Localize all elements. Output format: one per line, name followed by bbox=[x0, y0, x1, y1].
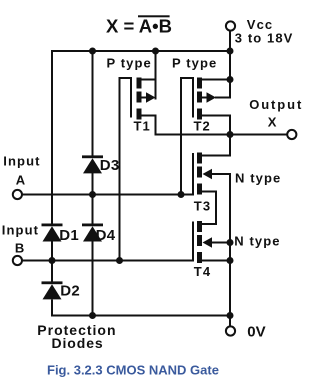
svg-text:Diodes: Diodes bbox=[52, 335, 104, 351]
svg-text:Output: Output bbox=[249, 97, 303, 112]
svg-text:D2: D2 bbox=[60, 283, 80, 300]
label formula X = A.B bbox=[106, 15, 172, 36]
wire top Vcc rail bbox=[51, 50, 231, 52]
junction dot Vcc rail / Vcc terminal bbox=[227, 48, 234, 55]
T4 source stub to 0V column bbox=[202, 260, 232, 262]
junction dot Vcc rail / T1 source bbox=[152, 48, 159, 55]
T1 source column from Vcc rail bbox=[155, 50, 157, 100]
wire D2 anode to 0V rail bbox=[51, 300, 53, 317]
T3 gate plate bbox=[192, 153, 194, 196]
svg-text:0V: 0V bbox=[247, 324, 265, 341]
junction dot Input B / D1-D2 bbox=[49, 257, 56, 264]
T3 source stub bbox=[202, 191, 218, 193]
T1 substrate arrow (points right) bbox=[146, 92, 156, 103]
svg-text:Input: Input bbox=[3, 154, 40, 169]
T1 channel bar top bbox=[137, 78, 142, 89]
T2 substrate shaft right part to Vcc column bbox=[215, 97, 231, 99]
T2 substrate shaft left part bbox=[202, 97, 209, 99]
T3 channel bar bottom bbox=[197, 184, 202, 195]
terminal Input B bbox=[13, 256, 22, 265]
wire output line to Output X terminal bbox=[155, 134, 288, 136]
junction dot T2 source / Vcc column bbox=[227, 76, 234, 83]
svg-text:T2: T2 bbox=[194, 119, 211, 134]
transistor Q T4 (N type) bbox=[193, 221, 231, 263]
terminal Output X bbox=[287, 130, 296, 139]
T1 gate cap bbox=[119, 77, 133, 79]
svg-text:X: X bbox=[268, 114, 278, 129]
wire right column T3 substrate to 0V terminal bbox=[229, 173, 231, 327]
junction dot T4 substrate / 0V column bbox=[227, 239, 234, 246]
junction dot 0V rail / D4 column bbox=[89, 312, 96, 319]
svg-text:P type: P type bbox=[172, 55, 217, 70]
wire D3 anode to Input A line bbox=[92, 173, 94, 195]
T2 drain stub bbox=[202, 115, 232, 117]
svg-text:T1: T1 bbox=[134, 119, 151, 134]
T1 channel bar bottom bbox=[137, 109, 142, 120]
svg-text:T4: T4 bbox=[194, 264, 211, 279]
wire T2 drain corner to output node bbox=[229, 115, 231, 157]
svg-text:X = A•B: X = A•B bbox=[106, 16, 172, 37]
transistor Q T2 (P type) bbox=[180, 77, 231, 120]
svg-text:B: B bbox=[15, 241, 26, 256]
wire T2 gate lead to Input A bbox=[180, 78, 182, 195]
svg-text:N type: N type bbox=[235, 171, 281, 186]
svg-text:N type: N type bbox=[234, 234, 280, 249]
wire Input A line bbox=[22, 194, 194, 196]
T2 channel bar bottom bbox=[197, 109, 202, 120]
T1 gate plate bbox=[130, 77, 132, 118]
T4 channel bar middle bbox=[197, 235, 202, 246]
svg-text:D3: D3 bbox=[100, 157, 120, 174]
transistor Q T1 (P type) bbox=[119, 50, 157, 136]
wire left column (Vcc rail to D1) bbox=[51, 50, 53, 224]
wire Input A line to D4 cathode bbox=[92, 195, 94, 224]
T2 substrate arrow (points right) bbox=[207, 92, 217, 103]
svg-text:A: A bbox=[16, 173, 27, 188]
junction dot T4 source / 0V column bbox=[227, 257, 234, 264]
T2 gate plate bbox=[192, 77, 194, 118]
diode D1 bbox=[42, 224, 63, 242]
svg-text:D4: D4 bbox=[96, 227, 116, 244]
diode D4 bbox=[82, 224, 103, 242]
wire Vcc terminal stub and right column to T2 substrate bbox=[229, 31, 231, 99]
T4 channel bar bottom bbox=[197, 252, 202, 263]
wire D4 anode to 0V rail bbox=[92, 242, 94, 317]
T2 gate cap bbox=[180, 77, 194, 79]
junction dot Input A / D3-D4 bbox=[89, 191, 96, 198]
junction dot Vcc rail / D3 column bbox=[89, 48, 96, 55]
diode D3 bbox=[82, 155, 103, 173]
svg-text:T3: T3 bbox=[194, 199, 211, 214]
wire Input B line to D2 cathode bbox=[51, 261, 53, 282]
wire D1 anode to Input B line bbox=[51, 242, 53, 261]
T1 drain corner to output line bbox=[155, 115, 157, 136]
junction dot Input B / T1 gate bbox=[116, 257, 123, 264]
T2 channel bar middle bbox=[197, 92, 202, 103]
svg-text:P type: P type bbox=[107, 55, 152, 70]
T1 substrate shaft bbox=[141, 97, 148, 99]
svg-text:Fig. 3.2.3 CMOS NAND Gate: Fig. 3.2.3 CMOS NAND Gate bbox=[47, 362, 219, 377]
T3 substrate arrow (points left) bbox=[203, 169, 213, 180]
junction dot Input A / T2 gate bbox=[178, 191, 185, 198]
T1 channel bar middle bbox=[137, 92, 142, 103]
T4 drain stub from T3 source bbox=[202, 223, 218, 225]
junction dot output node bbox=[227, 131, 234, 138]
T1 source stub to Vcc bbox=[141, 79, 157, 81]
terminal 0V bbox=[226, 326, 235, 335]
T3 substrate shaft bbox=[211, 173, 231, 175]
terminal Input A bbox=[13, 190, 22, 199]
diode D2 bbox=[42, 281, 63, 299]
transistor Q T3 (N type) bbox=[193, 153, 231, 226]
svg-text:3 to 18V: 3 to 18V bbox=[235, 30, 294, 45]
T4 substrate shaft bbox=[211, 242, 231, 244]
T3 drain stub to output node bbox=[202, 155, 232, 157]
wire bottom 0V rail bbox=[52, 315, 231, 317]
junction dot 0V rail / 0V terminal bbox=[227, 312, 234, 319]
terminal Vcc bbox=[226, 21, 235, 30]
T4 gate plate bbox=[192, 222, 194, 262]
wire Input B line bbox=[23, 260, 195, 262]
T3 source column to T4 drain bbox=[215, 191, 217, 226]
T2 channel bar top bbox=[197, 78, 202, 89]
T2 source stub to Vcc column bbox=[202, 79, 232, 81]
wire T1 gate lead to Input B bbox=[119, 78, 121, 261]
svg-text:D1: D1 bbox=[59, 227, 79, 244]
T4 channel bar top bbox=[197, 221, 202, 232]
wire Vcc rail to D3 cathode bbox=[92, 50, 94, 156]
T3 channel bar top bbox=[197, 153, 202, 164]
T3 channel bar middle bbox=[197, 167, 202, 178]
T1 drain stub bbox=[141, 115, 157, 117]
svg-text:Input: Input bbox=[2, 223, 39, 238]
T4 substrate arrow (points left) bbox=[203, 237, 213, 248]
